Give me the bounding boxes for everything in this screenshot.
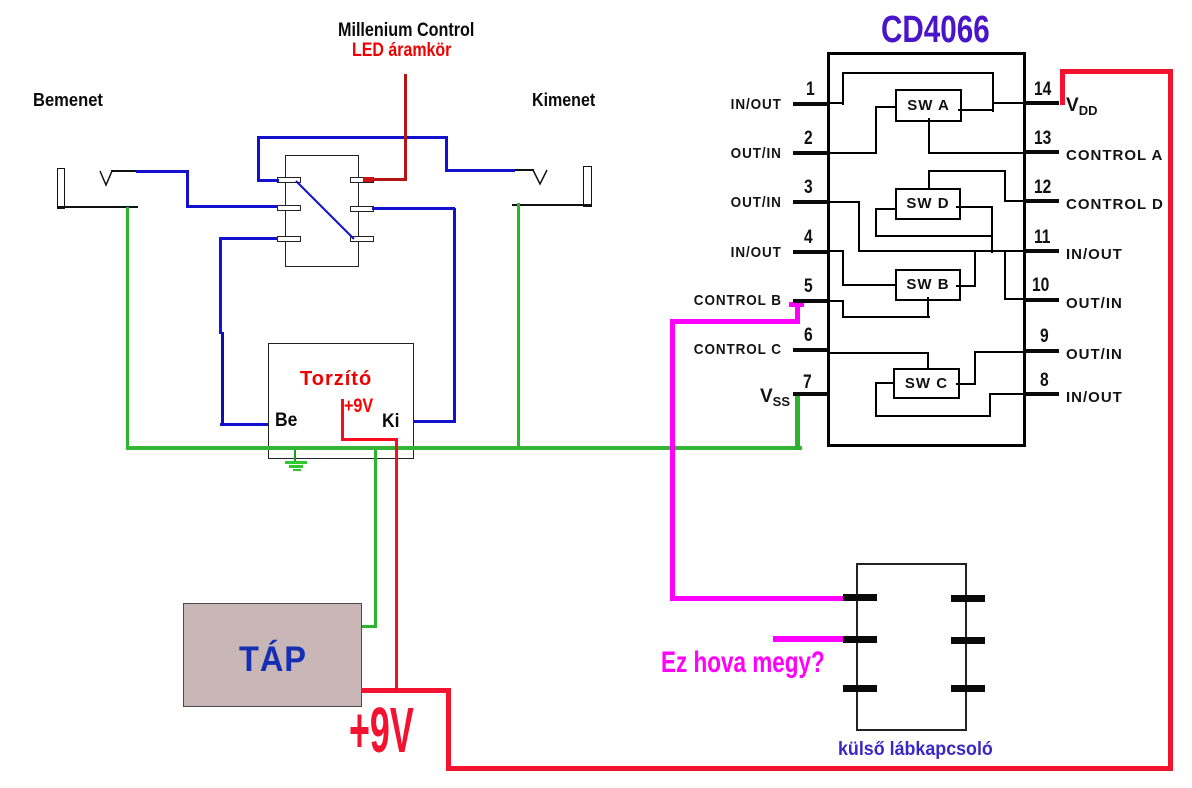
box footswitch bbox=[856, 563, 967, 731]
wire SWA right into box bbox=[958, 109, 992, 111]
wire blue down to Torzito Be upper bbox=[219, 237, 222, 334]
pin number 5 bbox=[804, 276, 813, 298]
jack J2 tip lead bbox=[514, 169, 534, 171]
switch S1 pin 5 right mid bbox=[350, 206, 374, 212]
label Be bbox=[275, 410, 297, 432]
label pin2 OUT/IN bbox=[731, 145, 782, 162]
wire red thick corner down bbox=[446, 688, 451, 771]
wire green bus down to TAP bbox=[374, 450, 377, 628]
pin number 10 bbox=[1032, 275, 1049, 297]
wire magenta to footswitch bbox=[670, 596, 845, 601]
label pin8 IN/OUT bbox=[1066, 389, 1123, 406]
pin number 3 bbox=[804, 177, 813, 199]
wire green input jack sleeve down bbox=[126, 207, 129, 448]
wire green into TAP box bbox=[361, 625, 377, 628]
node red at switch pin4 bbox=[363, 177, 373, 182]
wire pin4 drop bbox=[842, 250, 844, 286]
footswitch pin right 2 bbox=[951, 637, 985, 644]
wire blue step down bbox=[186, 170, 189, 208]
wire blue into switch pin2 bbox=[186, 205, 278, 208]
box Torzito bbox=[268, 343, 414, 459]
label pin5 CONTROL B bbox=[694, 292, 782, 309]
wire node row to pin11 bbox=[858, 250, 1023, 252]
wire magenta short drop bbox=[795, 302, 800, 324]
wire pin10 drop bbox=[1004, 250, 1006, 300]
wire blue down to Ki bbox=[453, 208, 456, 423]
wire SWB right riser bbox=[974, 250, 976, 287]
wire red thick drop to VDD pin14 bbox=[1060, 69, 1065, 105]
wire SWA top run bbox=[842, 72, 994, 74]
pin number 2 bbox=[804, 128, 813, 150]
label Torzito bbox=[300, 368, 372, 391]
wire blue into Ki bbox=[413, 420, 456, 423]
wire blue left drop to pin1 bbox=[257, 136, 260, 182]
switch S1 pin 4 right top bbox=[350, 177, 374, 183]
wire control B run bbox=[842, 316, 930, 318]
label pin12 CONTROL D bbox=[1066, 196, 1164, 213]
wire pin8 riser bbox=[989, 395, 991, 417]
wire pin2 inner bbox=[829, 152, 876, 154]
wire pin10 inner bbox=[1004, 298, 1023, 300]
label pin11 IN/OUT bbox=[1066, 246, 1123, 263]
label pin1 IN/OUT bbox=[731, 96, 782, 113]
pin 13 stub bbox=[1023, 150, 1059, 154]
pin 12 stub bbox=[1023, 199, 1059, 203]
wire green ground bus horizontal bbox=[126, 446, 802, 450]
pin number 12 bbox=[1034, 177, 1051, 199]
wire control D riser bbox=[928, 170, 930, 188]
pin number 14 bbox=[1034, 79, 1051, 101]
wire blue into Be bbox=[220, 423, 268, 426]
wire magenta long drop bbox=[670, 319, 675, 601]
pin 9 stub bbox=[1023, 349, 1059, 353]
pin 5 stub bbox=[793, 299, 829, 303]
wire blue down to Torzito Be lower bbox=[221, 332, 224, 426]
footswitch pin right 3 bbox=[951, 685, 985, 692]
wire SWD right drop bbox=[991, 206, 993, 253]
switch S1 body bbox=[285, 155, 359, 267]
wire SWD left drop bbox=[875, 208, 877, 237]
wire control C drop bbox=[927, 352, 929, 369]
ground bar 1 bbox=[285, 461, 307, 464]
wire SWC right out bbox=[956, 383, 976, 385]
footswitch pin right 1 bbox=[951, 595, 985, 602]
label pin10 OUT/IN bbox=[1066, 295, 1123, 312]
wire blue right drop bbox=[445, 136, 448, 172]
label kulso labkapcsolo bbox=[838, 739, 993, 761]
wire magenta at pin5 bbox=[789, 302, 804, 307]
wire SWC right riser bbox=[974, 351, 976, 385]
wire pin3 inner bbox=[829, 201, 860, 203]
wire red thick from TAP bbox=[361, 688, 451, 693]
label pin4 IN/OUT bbox=[731, 244, 782, 261]
wire green output jack sleeve down bbox=[517, 203, 520, 448]
wire red LED control vertical bbox=[404, 74, 407, 181]
pin number 13 bbox=[1034, 128, 1051, 150]
footswitch pin left 1 bbox=[843, 594, 877, 601]
jack J1 Bemenet tip contact bbox=[57, 168, 65, 209]
label Bemenet bbox=[33, 90, 103, 111]
label pin14 VDD bbox=[1066, 95, 1097, 118]
label +9V small bbox=[344, 396, 373, 418]
title Millenium Control bbox=[338, 20, 474, 42]
IC U1 body bbox=[827, 52, 1026, 447]
wire blue into switch pin1 bbox=[257, 179, 279, 182]
pin number 7 bbox=[803, 372, 812, 394]
wire SWD left run bbox=[875, 235, 993, 237]
wire SWD right out bbox=[956, 206, 993, 208]
wire control D drop to pin12 bbox=[1004, 170, 1006, 201]
wire blue from switch pin5 bbox=[372, 207, 455, 210]
ground bar 3 bbox=[293, 469, 301, 471]
wire SWC bottom run bbox=[875, 415, 991, 417]
switch cell SW D bbox=[895, 188, 961, 220]
wire red thick bottom run bbox=[446, 766, 1173, 771]
wire pin5 inner bbox=[829, 300, 844, 302]
wire pin4 inner bbox=[829, 250, 844, 252]
IC U1 CD4066 title bbox=[881, 9, 990, 52]
jack J2 sleeve line bbox=[512, 204, 592, 206]
switch cell SW B bbox=[895, 269, 961, 301]
label Ki bbox=[382, 411, 399, 433]
pin number 11 bbox=[1034, 227, 1050, 249]
wire magenta stub Ez hova megy bbox=[773, 636, 848, 642]
switch cell SW A bbox=[895, 89, 962, 122]
wire pin14 inner bbox=[992, 102, 1023, 104]
footswitch pin left 2 bbox=[843, 636, 877, 643]
wire SWB right into box bbox=[956, 285, 976, 287]
pin number 6 bbox=[804, 325, 813, 347]
wire pin9 inner bbox=[974, 351, 1023, 353]
wire blue top horizontal bbox=[257, 136, 448, 139]
footswitch pin left 3 bbox=[843, 685, 877, 692]
jack J2 tip spring bbox=[529, 167, 553, 187]
label Ez hova megy? bbox=[661, 646, 825, 680]
pin 1 stub bbox=[793, 102, 829, 106]
wire SWB left into box bbox=[842, 284, 896, 286]
pin 6 stub bbox=[793, 348, 829, 352]
pin 2 stub bbox=[793, 151, 829, 155]
ground stem bbox=[294, 450, 296, 463]
wire SWC left drop bbox=[875, 382, 877, 417]
label pin13 CONTROL A bbox=[1066, 147, 1163, 164]
switch S1 pin 3 left bottom bbox=[277, 236, 301, 242]
label Kimenet bbox=[532, 90, 595, 111]
wire red supply down to TAP rail bbox=[395, 438, 398, 692]
label +9V big bbox=[349, 693, 414, 767]
wire SWA right drop bbox=[992, 72, 994, 112]
pin 7 stub bbox=[793, 392, 829, 396]
jack J1 tip lead bbox=[111, 170, 137, 172]
label pin6 CONTROL C bbox=[694, 341, 782, 358]
wire pin8 inner bbox=[989, 393, 1023, 395]
box TAP power supply bbox=[183, 603, 362, 707]
wire SWA left riser bbox=[875, 106, 877, 154]
label pin9 OUT/IN bbox=[1066, 346, 1123, 363]
label pin7 VSS bbox=[760, 386, 790, 409]
jack J1 tip spring bbox=[96, 168, 120, 188]
wire blue from switch pin3 bbox=[221, 237, 278, 240]
wire control A to pin13 bbox=[928, 152, 1023, 154]
wire green bus up to VSS pin7 bbox=[795, 396, 800, 450]
switch S1 pin 6 right bottom bbox=[350, 236, 374, 242]
pin number 8 bbox=[1040, 370, 1049, 392]
label TAP bbox=[239, 640, 307, 680]
jack J2 Kimenet tip contact bbox=[583, 166, 592, 207]
switch S1 pin 1 left top bbox=[277, 177, 301, 183]
wire SWA left into box bbox=[875, 106, 895, 108]
wire SWD left out bbox=[875, 208, 895, 210]
pin 8 stub bbox=[1023, 392, 1059, 396]
pin number 4 bbox=[804, 227, 813, 249]
wire pin3 drop bbox=[858, 201, 860, 252]
wire blue to output jack bbox=[445, 169, 515, 172]
ground bar 2 bbox=[289, 465, 303, 468]
label LED aramkor bbox=[352, 40, 451, 62]
switch S1 pole diagonal bbox=[290, 175, 360, 245]
wire pin1 inner bbox=[829, 102, 844, 104]
wire control C run bbox=[829, 352, 929, 354]
pin 10 stub bbox=[1023, 298, 1059, 302]
wire blue from input jack tip bbox=[136, 170, 189, 173]
pin 14 stub bbox=[1023, 101, 1059, 105]
wire control D run bbox=[928, 170, 1006, 172]
pin 11 stub bbox=[1023, 249, 1059, 253]
pin 4 stub bbox=[793, 250, 829, 254]
wire red thick top run bbox=[1060, 69, 1173, 74]
wire control A drop bbox=[928, 118, 930, 154]
pin number 1 bbox=[806, 79, 815, 101]
jack J1 sleeve line bbox=[58, 206, 138, 208]
wire red supply drop inside Torzito bbox=[341, 399, 344, 441]
wire red supply corner bbox=[341, 438, 398, 441]
wire magenta horizontal bbox=[670, 319, 800, 324]
wire SWB bottom riser bbox=[927, 297, 929, 318]
wire SWA pin1 riser bbox=[842, 72, 844, 105]
wire red LED control horizontal bbox=[367, 178, 407, 181]
switch S1 pin 2 left mid bbox=[277, 205, 301, 211]
pin number 9 bbox=[1040, 326, 1049, 348]
label pin3 OUT/IN bbox=[731, 194, 782, 211]
switch cell SW C bbox=[893, 368, 960, 399]
wire control B drop bbox=[842, 300, 844, 318]
wire pin12 inner bbox=[1004, 200, 1023, 202]
wire SWC left out bbox=[875, 382, 895, 384]
wire red thick right riser bbox=[1168, 69, 1173, 771]
pin 3 stub bbox=[793, 200, 829, 204]
